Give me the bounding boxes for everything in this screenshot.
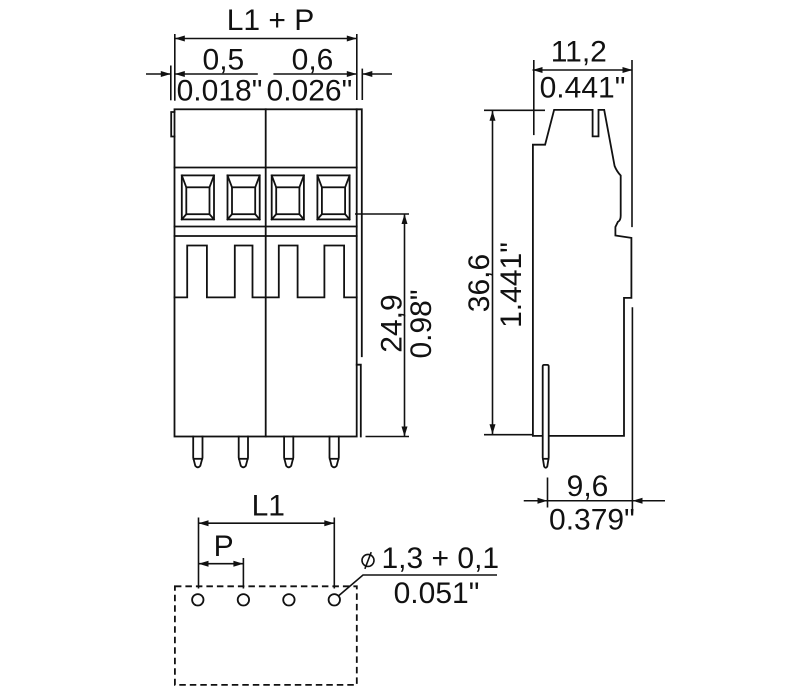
arrow 24,9 bottom <box>402 427 408 437</box>
screw opening 2 <box>228 175 260 219</box>
dim line L1+P <box>175 38 357 40</box>
arrow P left <box>199 561 209 567</box>
arrow P right <box>233 561 243 567</box>
dim line L1 <box>199 522 335 524</box>
svg-text:0.379": 0.379" <box>549 504 635 537</box>
svg-text:36,6: 36,6 <box>463 254 496 312</box>
dim 24,9 extension bottom <box>366 436 410 438</box>
svg-text:0.018": 0.018" <box>177 75 263 108</box>
pin 1 front <box>193 437 202 468</box>
side view body profile <box>533 110 632 436</box>
dim L1 extension right <box>333 518 335 589</box>
dim 9,6 extension left <box>547 478 549 508</box>
screw opening 4 <box>317 175 349 219</box>
arrow L1 left <box>199 520 209 526</box>
dim line 0,5 body <box>175 73 258 75</box>
hole 4 <box>329 594 340 605</box>
front view body outline <box>175 109 357 436</box>
arrow 0,6 outside <box>362 71 372 77</box>
dim P extension right <box>242 558 244 589</box>
arrow 9,6 left outside <box>538 498 548 504</box>
dim line 0,6 right tail <box>362 73 392 75</box>
svg-text:1,3 + 0,1: 1,3 + 0,1 <box>382 542 500 575</box>
dim line 11,2 <box>533 69 633 71</box>
arrowheads <box>161 36 643 567</box>
screw opening 1 <box>182 175 214 219</box>
svg-text:L1 + P: L1 + P <box>227 4 315 37</box>
arrow 0,5 outside <box>161 71 171 77</box>
arrow L1 right <box>324 520 334 526</box>
front view left tab <box>171 112 174 137</box>
front view horizontal line top section <box>175 167 357 169</box>
svg-text:0.98": 0.98" <box>405 289 438 358</box>
diameter symbol <box>362 554 374 566</box>
svg-text:9,6: 9,6 <box>567 470 609 503</box>
hole 2 <box>238 594 249 605</box>
svg-text:24,9: 24,9 <box>376 294 409 352</box>
arrow 9,6 right outside <box>633 498 643 504</box>
dim line P <box>199 563 244 565</box>
pin 3 front <box>284 437 293 468</box>
dim 0,6 extension lip <box>361 69 363 100</box>
front view horizontal line below screws <box>175 226 357 228</box>
dim 0,5 extension tab <box>170 66 172 101</box>
dim 36,6 extension top <box>484 109 545 111</box>
front view right lip upper <box>357 109 362 356</box>
comb wall pattern <box>175 246 357 298</box>
arrow 24,9 top <box>402 214 408 224</box>
screw opening 3 <box>272 175 304 219</box>
svg-text:L1: L1 <box>252 489 285 522</box>
dim 24,9 extension top <box>355 213 409 215</box>
side view pin <box>543 365 549 468</box>
arrow 36,6 top <box>490 111 496 121</box>
dim 36,6 extension bottom <box>484 434 533 436</box>
svg-text:0.051": 0.051" <box>394 577 480 610</box>
arrow L1+P right <box>347 36 357 42</box>
svg-text:0.026": 0.026" <box>267 75 353 108</box>
svg-text:0,5: 0,5 <box>203 43 245 76</box>
pin 4 front <box>330 437 339 468</box>
svg-text:0.441": 0.441" <box>540 72 626 105</box>
svg-text:0,6: 0,6 <box>292 43 334 76</box>
arrow 11,2 left <box>533 67 543 73</box>
arrow 11,2 right <box>623 67 633 73</box>
dim 11,2 extension left <box>533 60 535 135</box>
dim L1 extension left <box>198 518 200 589</box>
svg-text:1.441": 1.441" <box>495 242 528 328</box>
svg-text:11,2: 11,2 <box>551 35 607 68</box>
arrow 0,5 inside <box>175 71 185 77</box>
dim 11,2 extension right <box>631 60 633 227</box>
arrow 36,6 bottom <box>490 424 496 434</box>
dim line 0,5 left tail <box>146 73 171 75</box>
front view center divider <box>265 109 267 436</box>
hole 1 <box>192 594 203 605</box>
arrow L1+P left <box>175 36 185 42</box>
bottom view dashed outline <box>175 586 357 685</box>
dimension graphics <box>146 34 665 596</box>
arrow 0,6 inside <box>347 71 357 77</box>
dim L1+P extension right <box>356 34 358 100</box>
dim 9,6 extension right <box>631 307 633 511</box>
leader line diameter <box>339 575 498 596</box>
svg-text:P: P <box>214 530 234 563</box>
front view horizontal line comb top <box>175 235 357 237</box>
dim line 24,9 <box>404 214 406 437</box>
dim line 9,6 <box>524 500 665 502</box>
pin 2 front <box>239 437 248 468</box>
front view right lip lower <box>357 365 361 437</box>
dim line 36,6 <box>492 111 494 435</box>
hole 3 <box>283 594 294 605</box>
dim line 0,6 body <box>273 73 356 75</box>
dim L1+P extension left <box>174 34 176 101</box>
